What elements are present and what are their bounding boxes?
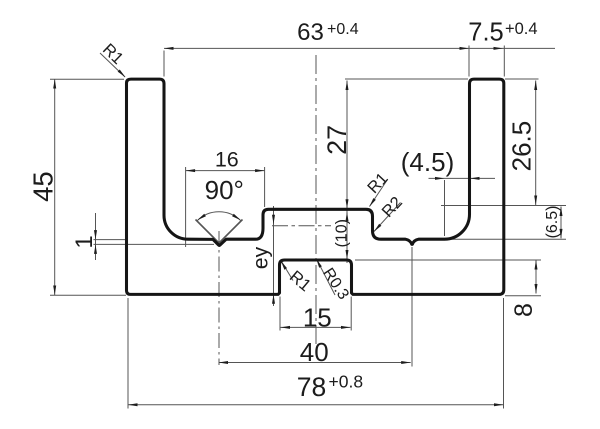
svg-text:90°: 90° xyxy=(205,175,244,205)
svg-text:78: 78 xyxy=(297,372,326,402)
svg-text:40: 40 xyxy=(300,337,329,367)
svg-text:7.5: 7.5 xyxy=(468,19,503,47)
svg-text:ey: ey xyxy=(250,246,273,269)
svg-text:(4.5): (4.5) xyxy=(401,147,454,177)
svg-text:(10): (10) xyxy=(334,219,351,247)
svg-text:16: 16 xyxy=(215,148,239,172)
svg-text:(6.5): (6.5) xyxy=(544,206,561,239)
svg-text:+0.4: +0.4 xyxy=(505,20,538,38)
svg-text:+0.4: +0.4 xyxy=(327,21,359,38)
svg-text:+0.8: +0.8 xyxy=(329,372,364,392)
svg-text:15: 15 xyxy=(303,302,332,332)
svg-text:63: 63 xyxy=(297,19,324,46)
svg-text:27: 27 xyxy=(322,125,352,155)
svg-text:45: 45 xyxy=(27,171,58,202)
svg-text:8: 8 xyxy=(510,303,538,317)
svg-text:26.5: 26.5 xyxy=(506,121,536,172)
svg-text:1: 1 xyxy=(71,235,98,248)
